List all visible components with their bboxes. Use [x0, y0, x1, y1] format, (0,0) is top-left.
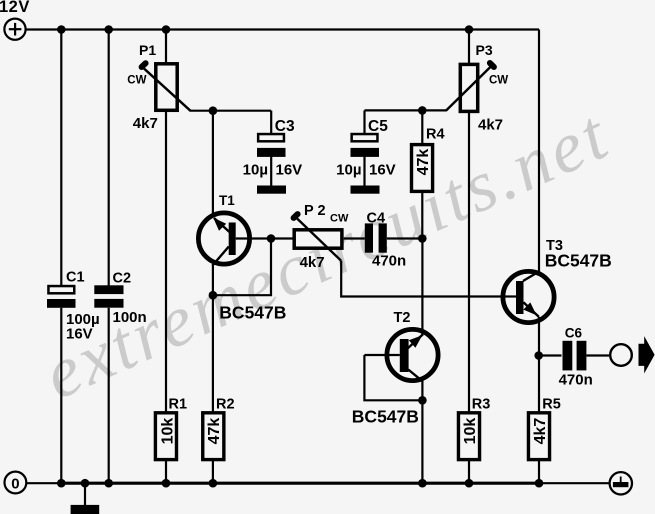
svg-text:470n: 470n	[559, 371, 593, 388]
capacitor C2	[94, 271, 146, 327]
node rail T2	[418, 479, 427, 488]
wire C5 drop	[363, 110, 365, 134]
svg-text:R2: R2	[216, 397, 235, 413]
wire C1 column top	[60, 30, 62, 287]
node T1 base junction	[267, 234, 276, 243]
wire R3 bottom	[468, 461, 470, 484]
svg-text:10k: 10k	[462, 418, 479, 445]
node T3 emitter C6	[534, 351, 543, 360]
svg-text:CW: CW	[330, 213, 349, 225]
svg-text:C2: C2	[113, 271, 132, 287]
svg-text:16V: 16V	[369, 162, 396, 179]
svg-text:C4: C4	[367, 211, 386, 227]
output terminal	[610, 344, 632, 366]
wire R2 bottom	[212, 461, 214, 484]
node rail R1	[162, 479, 171, 488]
svg-text:4k7: 4k7	[133, 115, 158, 132]
svg-text:47k: 47k	[206, 418, 223, 445]
transistor T2	[352, 310, 438, 427]
svg-text:100n: 100n	[113, 309, 147, 326]
svg-text:CW: CW	[489, 75, 508, 87]
wire top rail	[26, 28, 539, 30]
svg-text:47k: 47k	[415, 149, 432, 176]
svg-text:470n: 470n	[372, 253, 406, 270]
capacitor C1	[47, 270, 100, 343]
node rail C1	[57, 479, 66, 488]
svg-text:C3: C3	[275, 118, 295, 135]
capacitor C5	[336, 118, 396, 179]
wire T3 emitter bottom	[538, 317, 540, 412]
resistor R5	[528, 397, 560, 460]
svg-text:R3: R3	[472, 397, 491, 413]
ground bar C5	[351, 186, 380, 194]
wire C3 drop	[270, 111, 272, 134]
wire P1 wiper horizontal	[190, 110, 272, 112]
svg-text:10k: 10k	[159, 418, 176, 445]
wire P2 wiper drop	[341, 261, 502, 297]
node rail C2	[104, 479, 113, 488]
wire bottom rail main	[61, 482, 539, 485]
wire C5 to ground bar	[363, 156, 365, 186]
wire bottom rail right	[539, 482, 610, 484]
svg-text:BC547B: BC547B	[219, 302, 286, 322]
output arrow	[639, 336, 655, 373]
wire C6 left	[539, 354, 562, 356]
wire P1 bottom to R1	[165, 112, 167, 412]
svg-text:16V: 16V	[66, 326, 93, 343]
node wiper T1 emitter	[209, 106, 218, 115]
supply terminal +12V	[4, 19, 25, 40]
svg-text:C6: C6	[565, 326, 583, 341]
wire C3 to ground bar	[270, 156, 272, 186]
svg-text:R5: R5	[542, 397, 561, 413]
wire P2 left	[271, 237, 293, 239]
wire P3 top	[468, 30, 470, 65]
wire P3 bottom to R3	[468, 113, 470, 412]
wire T1 base-collector link	[213, 239, 271, 296]
svg-text:4k7: 4k7	[478, 116, 503, 133]
svg-text:P3: P3	[476, 42, 493, 58]
resistor R1	[155, 397, 187, 460]
potentiometer P3	[446, 42, 508, 134]
potentiometer P1	[127, 42, 190, 132]
node rail R3	[465, 479, 474, 488]
node top rail P3	[465, 25, 474, 34]
wire C2 bottom	[108, 308, 110, 484]
wire C2 column top	[108, 30, 110, 287]
wire bottom rail left	[27, 482, 61, 484]
wire P1 top	[165, 30, 167, 64]
wire T2 base link	[364, 355, 422, 400]
resistor R2	[203, 397, 235, 460]
ground symbol	[71, 483, 100, 514]
svg-text:10µ: 10µ	[336, 162, 361, 179]
wire T2 emitter bottom	[421, 380, 423, 483]
wire R5 bottom	[538, 461, 540, 484]
earth terminal	[610, 472, 632, 494]
node wiper R4	[418, 106, 427, 115]
svg-text:BC547B: BC547B	[352, 407, 419, 427]
svg-text:0: 0	[11, 476, 19, 493]
svg-text:R1: R1	[169, 397, 188, 413]
wire right drop to T3 collector	[538, 30, 540, 273]
svg-text:12V: 12V	[0, 0, 30, 16]
node rail ground	[81, 479, 90, 488]
capacitor C4	[365, 211, 406, 270]
svg-text:R4: R4	[426, 127, 445, 143]
svg-text:T1: T1	[219, 193, 235, 208]
transistor T1	[198, 193, 286, 322]
wire R4 top	[421, 110, 423, 144]
wire R4 bottom	[421, 192, 423, 239]
svg-text:P1: P1	[139, 42, 156, 58]
wire T1 emitter	[212, 111, 214, 217]
watermark	[32, 94, 621, 415]
node top rail C2	[104, 25, 113, 34]
svg-text:CW: CW	[127, 74, 146, 86]
node T2 base link	[418, 396, 427, 405]
node rail R2	[209, 479, 218, 488]
svg-text:P 2: P 2	[304, 203, 326, 219]
node top rail C1	[57, 25, 66, 34]
svg-text:10µ: 10µ	[243, 162, 268, 179]
wire C1 bottom	[60, 308, 62, 483]
svg-text:T2: T2	[394, 310, 411, 326]
node C4 R4 T2 junction	[418, 234, 427, 243]
wire P2 right to C4	[344, 237, 365, 239]
wire T3 base	[501, 295, 517, 297]
wire R1 bottom	[165, 461, 167, 484]
transistor T3	[503, 238, 612, 323]
wire C4 right	[387, 237, 423, 239]
ground bar C3	[257, 186, 286, 194]
capacitor C6	[559, 326, 593, 389]
svg-text:4k7: 4k7	[532, 418, 549, 445]
svg-text:16V: 16V	[276, 162, 303, 179]
node rail R5	[535, 479, 544, 488]
svg-text:4k7: 4k7	[300, 254, 325, 271]
resistor R4	[412, 127, 445, 192]
terminal 0	[5, 472, 27, 494]
wire T1 collector to R2	[212, 264, 214, 412]
potentiometer P2	[294, 203, 349, 271]
svg-text:BC547B: BC547B	[545, 250, 612, 270]
capacitor C3	[243, 118, 303, 179]
wire T2 collector top	[421, 239, 423, 335]
node T1 collector link	[209, 291, 218, 300]
wire C6 right to output	[587, 354, 610, 356]
wire P3 wiper horizontal	[365, 109, 447, 111]
node top rail P1	[162, 25, 171, 34]
svg-text:C1: C1	[66, 270, 85, 286]
resistor R3	[458, 397, 490, 460]
svg-text:C5: C5	[368, 118, 388, 135]
